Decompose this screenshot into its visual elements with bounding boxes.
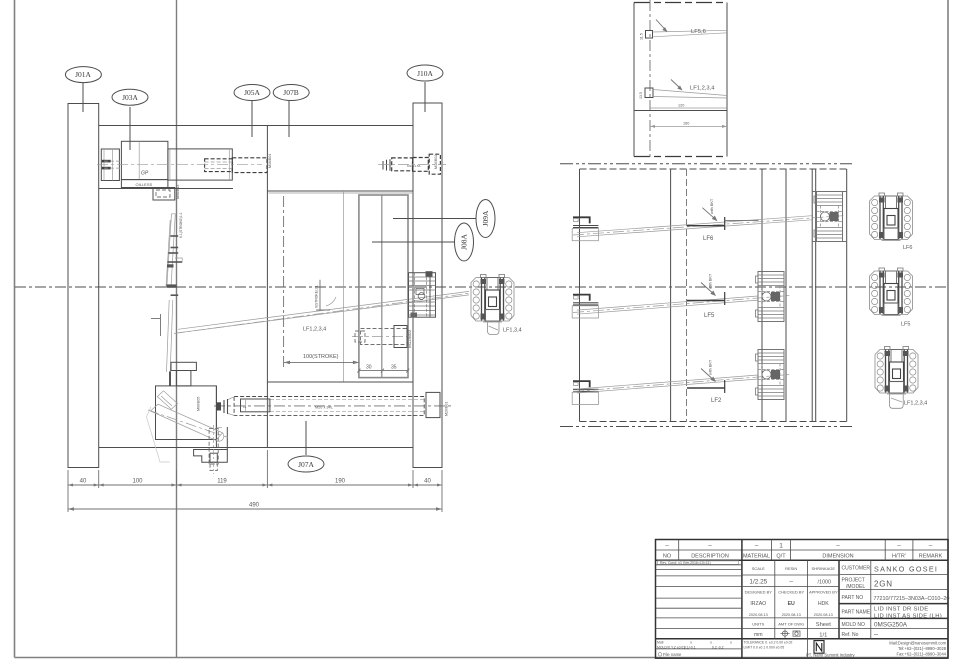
- right clamping plate J10A: [413, 103, 442, 468]
- svg-text:M16/B04: M16/B04: [268, 154, 272, 168]
- box top dashed edge: [580, 168, 847, 170]
- svg-text:–: –: [789, 579, 793, 586]
- cylinder centerline: [214, 405, 452, 407]
- svg-text:LF1,2,3,4: LF1,2,3,4: [904, 401, 927, 407]
- parts list row lines: [656, 565, 742, 629]
- step bracket bottom: [194, 450, 228, 463]
- svg-text:Sheet: Sheet: [816, 622, 832, 628]
- page border bottom: [15, 657, 949, 659]
- file name row: [658, 653, 662, 657]
- small bracket under clamp: [153, 188, 175, 201]
- svg-text:–: –: [874, 632, 878, 639]
- SEC:DETAILBOX: [634, 0, 727, 160]
- header row labels: [663, 554, 943, 560]
- svg-text:LF5: LF5: [704, 313, 715, 319]
- row line under dash row: [656, 549, 949, 551]
- svg-text:1/1: 1/1: [819, 632, 827, 638]
- svg-text:J08A: J08A: [460, 234, 469, 250]
- SEC:TITLEBLOCK: [656, 540, 950, 659]
- svg-text:–: –: [755, 543, 759, 550]
- svg-text:MOLD/X,Y,Z ±0.01: MOLD/X,Y,Z ±0.01: [657, 645, 685, 649]
- svg-text:GP: GP: [141, 171, 149, 177]
- detail box vertical centerline: [649, 0, 651, 160]
- svg-text:J03A: J03A: [122, 93, 138, 102]
- inner dashed vertical x=686.5: [686, 169, 688, 422]
- lifter cross pins: [167, 236, 182, 295]
- detail box right edge: [726, 3, 728, 157]
- latch plan unit LF5 middle: [756, 272, 785, 322]
- svg-text:PT. Nano Summit Industry: PT. Nano Summit Industry: [806, 653, 856, 658]
- svg-text:100: 100: [132, 479, 143, 485]
- svg-text:2020.08.13: 2020.08.13: [782, 613, 801, 617]
- svg-text:Tel:+62–(021)–8990–3028: Tel:+62–(021)–8990–3028: [898, 646, 947, 651]
- balloon J03A: [112, 89, 148, 105]
- ghost outline: [147, 407, 171, 462]
- lifter foot block: [176, 371, 191, 386]
- svg-text:Ref. No: Ref. No: [842, 632, 859, 638]
- svg-text:CUSTOMER: CUSTOMER: [842, 566, 871, 572]
- svg-text:–: –: [836, 543, 840, 550]
- side view unit LF5 far right: [870, 268, 913, 316]
- ejector housing: [156, 386, 217, 440]
- svg-text:LF2: LF2: [711, 398, 722, 404]
- svg-text:o: o: [690, 641, 692, 645]
- svg-text:/1000: /1000: [818, 580, 832, 586]
- right top bolt shaft dashed: [392, 158, 413, 171]
- SEC:RIGHTVIEW: [471, 164, 927, 427]
- svg-text:with BKT: with BKT: [710, 198, 714, 214]
- dimension extension lines: [68, 450, 442, 512]
- svg-text:2GN: 2GN: [874, 580, 893, 589]
- svg-text:DESCRIPTION: DESCRIPTION: [691, 554, 729, 560]
- horizontal page centerline y=287: [15, 286, 948, 288]
- svg-text:J05A: J05A: [244, 88, 260, 97]
- svg-text:77210/77215–3N03A–C010–20: 77210/77215–3N03A–C010–20: [874, 596, 950, 602]
- contact info: [889, 640, 946, 656]
- svg-text:100(STROKE): 100(STROKE): [303, 354, 339, 360]
- rev cond strip: [658, 561, 739, 565]
- latch block on right plate: [409, 271, 436, 317]
- link rod to latch: [178, 291, 469, 329]
- lower hydraulic cylinder J07A dashed body: [234, 397, 424, 416]
- svg-text:M20/B01: M20/B01: [445, 402, 449, 416]
- inner vertical x=786: [785, 169, 787, 422]
- svg-text:PART NO: PART NO: [842, 595, 864, 601]
- svg-text:11.5: 11.5: [640, 33, 644, 40]
- page border left: [14, 0, 16, 658]
- svg-text:M20 x 34L: M20 x 34L: [315, 405, 333, 409]
- svg-text:TOLERANCE 0. ±0.2 0.00: TOLERANCE 0. ±0.2 0.00 ±0.02: [744, 641, 793, 645]
- svg-text:40: 40: [80, 479, 87, 485]
- bottom tab of LF1,2,3,4: [890, 395, 904, 409]
- band bottom left segment: [99, 188, 233, 190]
- vertical parting line x=176 full height: [176, 0, 178, 658]
- wall bracket 3: [572, 381, 598, 404]
- svg-text:2020.08.13: 2020.08.13: [749, 613, 768, 617]
- svg-text:M16/B02: M16/B02: [434, 155, 438, 169]
- box left edge: [579, 169, 581, 422]
- cylinder solid section: [241, 399, 270, 412]
- svg-text:J01A: J01A: [75, 70, 91, 79]
- svg-text:–: –: [665, 543, 669, 550]
- cylinder centerline: [97, 163, 262, 165]
- svg-text:DIMENSION: DIMENSION: [822, 554, 853, 560]
- svg-text:EU: EU: [788, 601, 795, 607]
- svg-text:REMARK: REMARK: [919, 554, 943, 560]
- center block verticals: [774, 560, 776, 639]
- svg-text:LF1,2,3,4: LF1,2,3,4: [690, 86, 715, 92]
- svg-text:35: 35: [391, 365, 397, 371]
- band bottom right segment: [267, 190, 413, 192]
- svg-text:UNITS: UNITS: [752, 621, 764, 626]
- balloon J08A (rotated): [455, 223, 474, 261]
- side view unit LF1,2,3,4 far right: [875, 347, 918, 395]
- svg-text:J07B: J07B: [283, 88, 298, 97]
- svg-text:File name: File name: [663, 652, 682, 657]
- svg-text:LF5: LF5: [901, 322, 910, 328]
- cavity vertical x=267.4: [266, 126, 268, 448]
- header verticals: [678, 540, 680, 561]
- wedge LF5,6 block: [646, 31, 653, 39]
- center block headers: [745, 566, 838, 626]
- svg-text:M10x1.5A: M10x1.5A: [407, 164, 421, 168]
- phantom line above box: [560, 163, 852, 165]
- svg-text:LID INST DR SIDE: LID INST DR SIDE: [874, 607, 928, 613]
- box right edge: [846, 169, 848, 422]
- svg-text:NO: NO: [663, 554, 672, 560]
- inner vertical x=762: [761, 169, 763, 422]
- bottom tab of LF1,3,4: [488, 323, 500, 335]
- right top bolt mid dashed: [413, 158, 429, 172]
- band bottom right second line: [269, 192, 414, 194]
- right block label divider: [870, 560, 872, 639]
- bolt centerline: [378, 164, 446, 166]
- svg-text:J10A: J10A: [417, 69, 433, 78]
- dimension labels: [80, 479, 432, 509]
- bottom cavity line y=382: [267, 381, 413, 383]
- light vertical x=343.5: [343, 191, 345, 382]
- svg-text:14: 14: [243, 405, 247, 409]
- stripper cylinder dashed: [361, 329, 408, 345]
- link rod 1: [577, 216, 812, 233]
- svg-text:119: 119: [217, 479, 227, 485]
- svg-text:Fax:+62–(021)–8990–3044: Fax:+62–(021)–8990–3044: [896, 652, 946, 657]
- stop line for rod3: [687, 387, 725, 389]
- oilless strip: [121, 180, 167, 188]
- svg-text:–: –: [897, 543, 901, 550]
- company logo: [814, 641, 824, 654]
- leader to J08A: [372, 241, 455, 243]
- vertical bolt dashed: [209, 429, 218, 465]
- stroke centerline vertical dash-dot: [283, 196, 285, 368]
- detail box bottom dashed edge: [634, 156, 727, 158]
- left clamping plate J01A: [68, 104, 99, 468]
- tolerance cell divider: [807, 639, 809, 659]
- left bushing flange: [101, 149, 119, 181]
- detail box top dashed edge: [634, 2, 727, 4]
- svg-text:PART NAME: PART NAME: [842, 610, 871, 616]
- 30 / 35 dimension: [359, 370, 408, 372]
- center block rows: [742, 574, 839, 576]
- svg-text:–: –: [929, 543, 933, 550]
- svg-text:LF6: LF6: [903, 245, 912, 251]
- side view unit LF1,3,4 between views: [471, 275, 514, 323]
- svg-text:2020.08.13: 2020.08.13: [814, 613, 833, 617]
- heavy line under header row: [656, 559, 949, 561]
- svg-text:with BKT: with BKT: [709, 273, 713, 289]
- right top bolt head dashed: [429, 154, 440, 174]
- svg-text:30: 30: [366, 365, 372, 371]
- svg-text:M08/B13: M08/B13: [176, 185, 180, 199]
- wall bracket 2: [572, 295, 598, 318]
- svg-text:M06/B05: M06/B05: [197, 397, 201, 411]
- leader arrow LF1,2,3,4: [671, 80, 682, 90]
- detail box left edge: [633, 3, 635, 157]
- svg-text:PROJECT: PROJECT: [842, 578, 865, 584]
- balloon J07B: [273, 85, 309, 101]
- inner stripper rect: [359, 195, 408, 378]
- svg-text:MOLD NO: MOLD NO: [842, 622, 865, 628]
- title block outer frame: [656, 540, 949, 659]
- guide pin dashed end: [205, 159, 233, 172]
- svg-text:9(STROKE)1:1: 9(STROKE)1:1: [315, 285, 319, 308]
- side view unit LF6 far right: [870, 193, 913, 241]
- lifter foot bracket: [171, 362, 196, 370]
- projection symbols: [781, 629, 801, 638]
- foot pin dark: [169, 371, 171, 386]
- latch plan unit LF2 bottom: [756, 350, 785, 400]
- right block labels: [842, 566, 871, 639]
- guide pin housing: [168, 149, 232, 180]
- svg-text:HDK: HDK: [818, 601, 829, 607]
- top plate edge y=125.5: [99, 125, 413, 127]
- right block rows: [839, 574, 948, 576]
- bolt dashed section beyond housing: [232, 158, 267, 173]
- angled rod lower: [151, 404, 223, 440]
- svg-text:–: –: [708, 543, 712, 550]
- svg-text:MATERIAL: MATERIAL: [743, 554, 770, 560]
- svg-text:/MODEL: /MODEL: [846, 584, 865, 590]
- svg-text:LF5,6: LF5,6: [691, 29, 706, 35]
- svg-text:SCALE: SCALE: [752, 566, 765, 571]
- svg-text:0.2 -0.2: 0.2 -0.2: [712, 645, 724, 649]
- SEC:LEFTVIEW: [65, 65, 495, 512]
- lifter blade: [167, 214, 176, 287]
- svg-text:CHECKED BY: CHECKED BY: [778, 590, 804, 595]
- left end fitting: [216, 402, 221, 410]
- svg-text:40: 40: [424, 479, 431, 485]
- svg-text:0MSG250A: 0MSG250A: [874, 622, 908, 629]
- housing right web: [215, 386, 217, 448]
- svg-text:o: o: [710, 641, 712, 645]
- wall bracket 1: [572, 217, 598, 240]
- right top bolt tip dashes: [383, 159, 390, 171]
- arrow LF5: [701, 283, 715, 296]
- stop line for rod2: [687, 300, 725, 302]
- inner vertical x=670.6: [670, 169, 672, 422]
- inner stripper divider: [381, 195, 383, 378]
- bottom area line: [656, 638, 949, 640]
- svg-text:H/TR': H/TR': [892, 554, 906, 560]
- svg-text:6.1(STROKE)1:1: 6.1(STROKE)1:1: [179, 212, 183, 238]
- phantom line below box: [560, 426, 852, 428]
- svg-text:1: 1: [779, 543, 783, 550]
- balloon J10A: [407, 65, 443, 81]
- stroke dim at rod: [319, 280, 321, 310]
- svg-text:Q/T: Q/T: [776, 554, 786, 560]
- svg-text:IRZAO: IRZAO: [750, 601, 766, 607]
- svg-text:13.5: 13.5: [639, 92, 643, 99]
- tolerance cell tiny text left: [657, 641, 732, 650]
- svg-text:LF6: LF6: [703, 236, 714, 242]
- svg-text:mm: mm: [754, 632, 763, 638]
- svg-text:160: 160: [683, 122, 689, 126]
- arrow LF6: [702, 208, 716, 220]
- svg-text:J09A: J09A: [481, 210, 490, 226]
- leader arrow LF5,6: [656, 20, 667, 32]
- dim line 1: [650, 107, 727, 109]
- top dash row contents: [665, 543, 933, 550]
- balloon J07A: [288, 456, 324, 472]
- svg-text:SANKO GOSEI: SANKO GOSEI: [874, 565, 938, 574]
- latch plan unit LF6 top right: [814, 192, 843, 242]
- inner vertical pair x=812/815.7: [811, 169, 813, 422]
- dim tick near lifter: [151, 318, 161, 320]
- svg-text:OILLESS: OILLESS: [136, 182, 153, 187]
- tolerance cell tiny text right: [744, 641, 793, 650]
- balloon J05A: [234, 85, 270, 101]
- svg-text:APPROVED BY: APPROVED BY: [809, 590, 838, 595]
- stop line for rod1: [687, 225, 725, 227]
- svg-text:120: 120: [678, 104, 684, 108]
- svg-text:RESIN: RESIN: [785, 566, 797, 571]
- dimension arrows row1: [68, 484, 442, 511]
- page border right: [947, 0, 949, 658]
- leader to J09A: [393, 218, 476, 220]
- clamp block J03A: [121, 141, 167, 179]
- svg-text:SHRINKAGE: SHRINKAGE: [812, 566, 836, 571]
- angled wedge upper: [157, 391, 177, 409]
- bottom band line y=447.5: [99, 447, 413, 449]
- svg-text:LF1,2,3,4: LF1,2,3,4: [303, 327, 326, 333]
- link rod 3: [577, 375, 758, 389]
- svg-text:DESIGNED BY: DESIGNED BY: [745, 590, 773, 595]
- arrow LF2: [701, 369, 715, 382]
- bolt dash clusters: [102, 160, 111, 163]
- svg-text:Mail:Design@nanosummit.com: Mail:Design@nanosummit.com: [889, 640, 946, 645]
- svg-text:with BKT: with BKT: [709, 359, 713, 375]
- wedge LF5,6 lines: [653, 30, 728, 32]
- dim line 2: [650, 125, 727, 127]
- wedge LF1,2,3,4 block: [645, 88, 653, 98]
- balloon J01A: [65, 67, 101, 83]
- svg-text:LF1,3,4: LF1,3,4: [503, 328, 522, 334]
- balloon J09A (rotated): [476, 200, 495, 238]
- solid line y=110.5: [634, 110, 727, 112]
- svg-text:0.1/-0.1: 0.1/-0.1: [684, 645, 696, 649]
- svg-text:LID INST AS SIDE (LH): LID INST AS SIDE (LH): [874, 613, 942, 619]
- link rod 2: [577, 296, 758, 310]
- cylinder right cap: [426, 392, 440, 417]
- svg-text:J07A: J07A: [298, 460, 314, 469]
- svg-text:AMT OF DWG: AMT OF DWG: [778, 621, 804, 626]
- svg-text:Matl: Matl: [657, 641, 664, 645]
- wedge LF1,2,3,4 lines: [653, 90, 727, 96]
- svg-text:490: 490: [249, 503, 260, 509]
- svg-text:1/2.25: 1/2.25: [749, 579, 767, 586]
- svg-text:o: o: [730, 641, 732, 645]
- svg-text:190: 190: [335, 479, 346, 485]
- box bottom dashed edge: [580, 421, 847, 423]
- svg-text:LIMIT 0.0 ±0.1: LIMIT 0.0 ±0.1 0.000 ±0.05: [744, 645, 785, 649]
- lifter rod continuation: [167, 300, 170, 372]
